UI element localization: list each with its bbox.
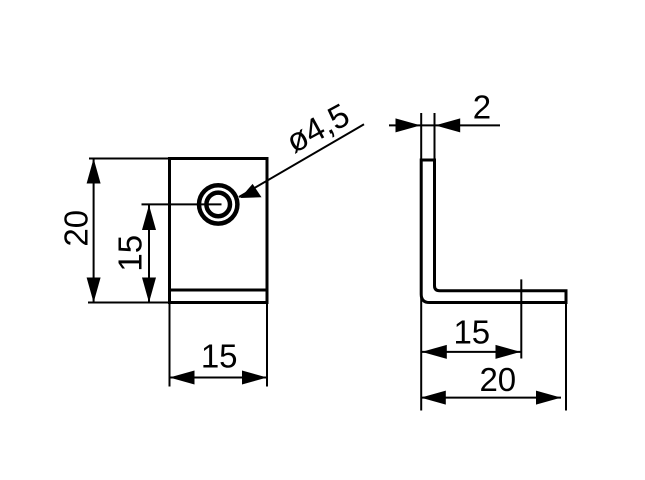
dimension line 15 side xyxy=(422,351,521,353)
extension line middle for dim 15 side xyxy=(520,279,522,358)
extension line right for dim 20 side xyxy=(565,304,567,411)
dimension line 15 width front xyxy=(170,377,268,379)
arrow right dim 20 side xyxy=(536,391,561,405)
dimension line 15 vertical front xyxy=(148,205,150,303)
arrow up dim 15 vertical xyxy=(142,205,156,230)
arrow down dim 15 vertical xyxy=(142,278,156,303)
extension line left for dim 2 xyxy=(420,113,422,160)
leader arrowhead xyxy=(240,184,261,198)
extension line bottom for dim 20 front xyxy=(88,302,170,304)
hole center line / extension for 15 xyxy=(142,203,222,205)
svg-text:20: 20 xyxy=(58,210,95,247)
svg-text:2: 2 xyxy=(473,88,491,125)
extension line left side view bottom dims xyxy=(420,295,422,411)
hole inner circle xyxy=(206,193,230,217)
arrow left dim 15 side xyxy=(422,345,447,359)
hole outer circle xyxy=(199,185,237,223)
arrow left-pointing dim 2 xyxy=(435,118,460,132)
arrow left dim 15 width xyxy=(170,371,195,385)
extension line right for width 15 front xyxy=(266,303,268,387)
dimension line 2 xyxy=(389,124,500,126)
arrow right dim 15 side xyxy=(496,345,521,359)
arrow up dim 20 front xyxy=(87,159,101,184)
svg-text:15: 15 xyxy=(201,338,238,375)
extension line right for dim 2 xyxy=(434,113,436,160)
dimension line 20 side xyxy=(421,397,561,399)
arrow down dim 20 front xyxy=(87,278,101,303)
svg-text:20: 20 xyxy=(479,361,516,398)
leader line for hole diameter xyxy=(239,124,364,197)
front view bracket outline xyxy=(170,159,268,303)
side view bracket outline xyxy=(421,160,566,303)
extension line left for width 15 front xyxy=(169,303,171,387)
svg-text:15: 15 xyxy=(112,235,149,272)
arrow right-pointing dim 2 xyxy=(396,118,421,132)
dimension line 20 front xyxy=(93,159,95,303)
extension line top for dim 20 front xyxy=(89,158,170,160)
bend tangent line front view xyxy=(170,289,268,292)
arrow left dim 20 side xyxy=(421,391,446,405)
arrow right dim 15 width xyxy=(242,371,267,385)
svg-text:15: 15 xyxy=(453,313,490,350)
